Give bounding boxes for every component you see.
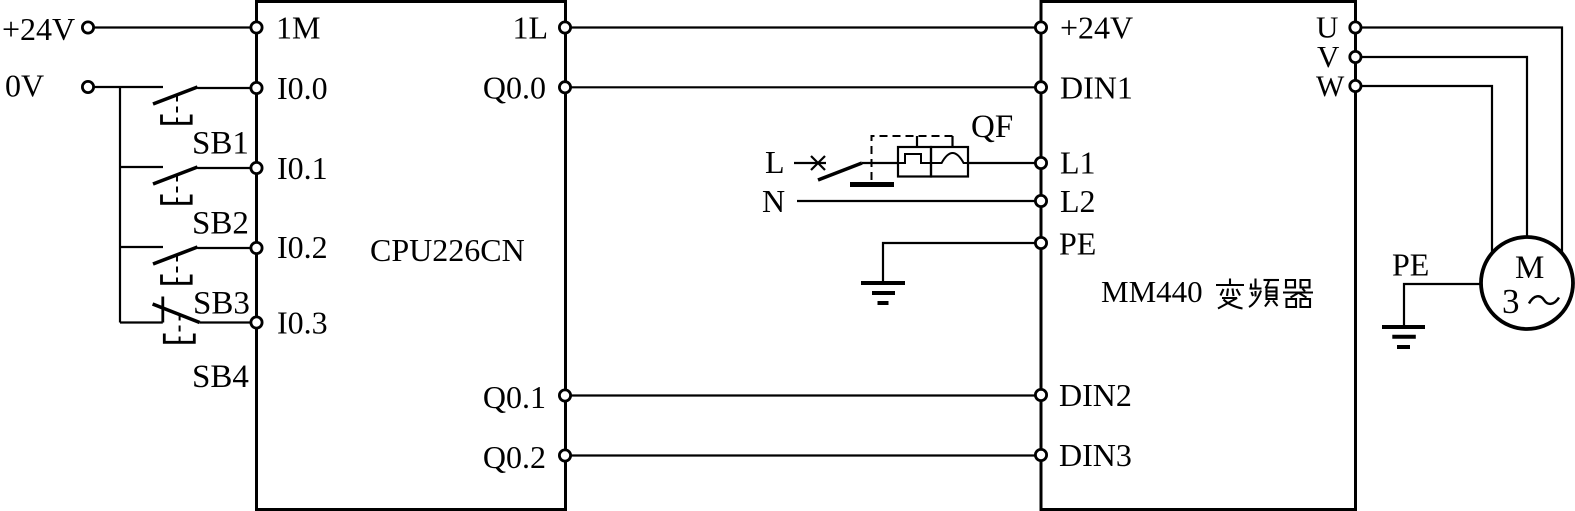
- svg-text:V: V: [1317, 39, 1340, 74]
- pin V: [1350, 51, 1361, 62]
- wire V to motor: [1355, 57, 1527, 238]
- svg-text:I0.0: I0.0: [277, 70, 328, 106]
- wire +24V supply to 1M: [88, 26, 256, 28]
- svg-text:+24V: +24V: [2, 11, 75, 47]
- thermal trip box: [898, 147, 931, 177]
- svg-text:N: N: [762, 183, 785, 219]
- svg-text:CPU226CN: CPU226CN: [370, 232, 525, 268]
- svg-text:1M: 1M: [276, 10, 320, 46]
- svg-text:3: 3: [1502, 282, 1520, 321]
- pin DIN1: [1035, 82, 1046, 93]
- wire motor PE to ground: [1404, 284, 1481, 326]
- pin PE inverter: [1035, 237, 1046, 248]
- wire 0V bus vertical: [119, 87, 121, 323]
- pin I0.2: [251, 242, 262, 253]
- wire Q0.0 to DIN1: [565, 86, 1041, 88]
- pin DIN2: [1035, 389, 1046, 400]
- svg-text:MM440: MM440: [1101, 274, 1203, 309]
- pushbutton SB4 (NC): [153, 297, 251, 343]
- pin I0.0: [251, 82, 262, 93]
- wire Q0.2 to DIN3: [565, 454, 1041, 456]
- pin Q0.0: [559, 82, 570, 93]
- svg-text:QF: QF: [971, 109, 1013, 145]
- breaker QF: [794, 136, 1041, 185]
- wire 1L to +24V of inverter: [565, 26, 1041, 28]
- wire 0V supply to SB1 contact: [88, 86, 163, 88]
- wire N to L2: [797, 200, 1041, 202]
- pushbutton SB3 (NO): [153, 247, 251, 283]
- svg-text:I0.3: I0.3: [277, 305, 328, 341]
- pin 1L: [559, 22, 570, 33]
- PLC U1 CPU226CN box: [257, 2, 566, 510]
- ground (QF PE): [861, 283, 905, 303]
- svg-text:1L: 1L: [512, 10, 548, 46]
- svg-text:W: W: [1316, 70, 1345, 103]
- svg-text:SB3: SB3: [193, 286, 250, 322]
- pin I0.3: [251, 317, 262, 328]
- svg-text:+24V: +24V: [1060, 10, 1133, 46]
- pin L2: [1035, 195, 1046, 206]
- label char 器: [1283, 280, 1313, 307]
- svg-text:I0.2: I0.2: [277, 229, 328, 265]
- wire bus stub to SB2: [120, 166, 163, 168]
- svg-text:PE: PE: [1392, 247, 1429, 283]
- svg-text:PE: PE: [1059, 226, 1096, 262]
- node 0V supply terminal: [82, 81, 93, 92]
- svg-text:L: L: [765, 144, 785, 180]
- svg-text:I0.1: I0.1: [277, 150, 328, 186]
- node +24V supply terminal: [82, 22, 93, 33]
- svg-text:DIN2: DIN2: [1059, 377, 1132, 413]
- motor label tilde: [1529, 296, 1559, 304]
- pushbutton SB1 (NO): [153, 87, 251, 123]
- svg-text:0V: 0V: [5, 68, 44, 104]
- svg-text:Q0.1: Q0.1: [483, 379, 546, 415]
- breaker linkage dashed: [872, 136, 953, 180]
- svg-text:Q0.2: Q0.2: [483, 439, 546, 475]
- wire QF to L1: [968, 162, 1041, 164]
- wire bus stub to SB4: [120, 321, 163, 323]
- pin +24V inverter: [1035, 22, 1046, 33]
- pin DIN3: [1035, 449, 1046, 460]
- magnetic trip box: [931, 147, 968, 177]
- svg-text:SB2: SB2: [192, 206, 249, 242]
- pin 1M: [251, 22, 262, 33]
- wire PE of inverter to ground: [883, 243, 1041, 281]
- breaker latch bar: [850, 182, 894, 187]
- pin U: [1350, 22, 1361, 33]
- pin Q0.1: [559, 390, 570, 401]
- wire bus stub to SB3: [120, 246, 163, 248]
- wire W to motor: [1355, 86, 1492, 254]
- motor M 3-phase: [1481, 237, 1573, 329]
- svg-text:M: M: [1515, 250, 1544, 286]
- pin Q0.2: [559, 450, 570, 461]
- label char 变: [1216, 279, 1244, 309]
- wire lever to trip units: [862, 162, 898, 164]
- pushbutton SB2 (NO): [153, 167, 251, 203]
- svg-text:L1: L1: [1060, 145, 1096, 181]
- pin W: [1350, 80, 1361, 91]
- svg-text:Q0.0: Q0.0: [483, 70, 546, 106]
- svg-text:L2: L2: [1060, 183, 1096, 219]
- svg-text:SB1: SB1: [192, 126, 249, 162]
- label char 频: [1249, 279, 1279, 308]
- pin L1: [1035, 157, 1046, 168]
- wire L input: [794, 162, 826, 164]
- svg-text:DIN3: DIN3: [1059, 437, 1132, 473]
- svg-text:DIN1: DIN1: [1060, 70, 1133, 106]
- inverter U2 MM440 box: [1041, 2, 1356, 510]
- svg-text:SB4: SB4: [192, 359, 249, 395]
- ground (motor PE): [1382, 327, 1425, 347]
- wire U to motor: [1355, 28, 1562, 254]
- pin I0.1: [251, 162, 262, 173]
- breaker lever: [818, 163, 862, 180]
- breaker contact cross: [811, 156, 825, 170]
- wire Q0.1 to DIN2: [565, 394, 1041, 396]
